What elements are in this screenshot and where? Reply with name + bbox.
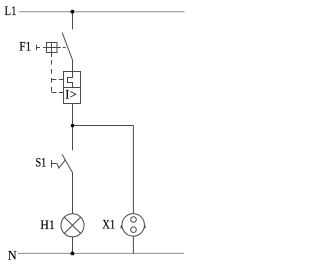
svg-text:N: N [8,249,17,263]
svg-text:>: > [70,88,77,102]
svg-text:F1: F1 [19,39,31,53]
svg-text:S1: S1 [36,156,47,170]
svg-text:X1: X1 [102,218,115,232]
svg-text:H1: H1 [40,218,55,232]
svg-text:L1: L1 [5,4,17,18]
